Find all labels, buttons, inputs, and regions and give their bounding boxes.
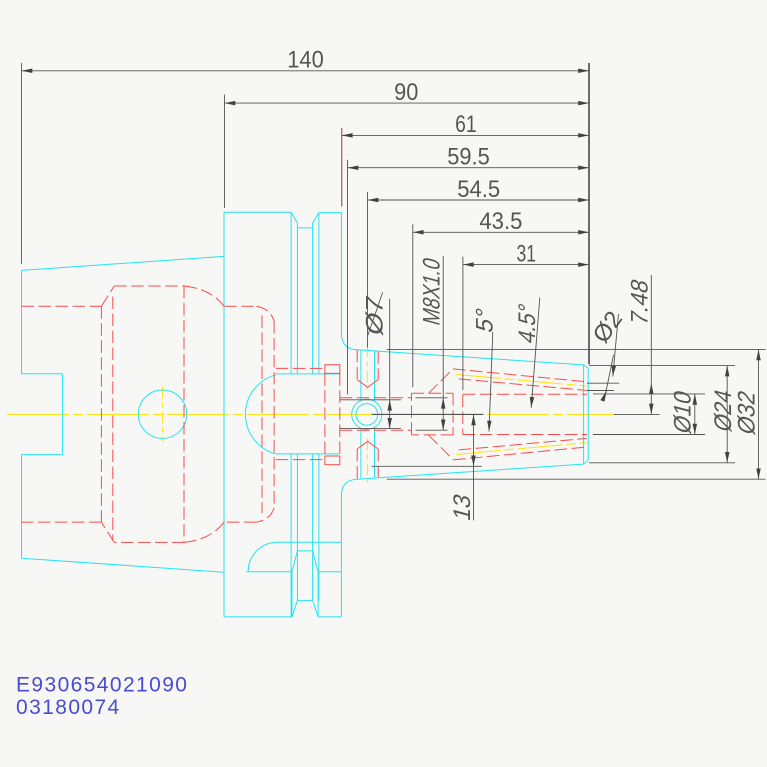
- coolant cross-hole walls top: [361, 350, 375, 401]
- svg-text:03180074: 03180074: [16, 696, 121, 719]
- cavity outer wall left: [100, 306, 102, 522]
- svg-text:43.5: 43.5: [479, 208, 522, 235]
- ext line flange left (90): [224, 95, 226, 209]
- collet outer taper bottom lines: [453, 438, 586, 460]
- shank cavity upper profile: [22, 286, 275, 321]
- dia32 dim line: [758, 349, 760, 479]
- keyway slot inner top: [292, 551, 318, 572]
- M8 dim line and arrows: [442, 256, 444, 398]
- flange disc bottom edge: [224, 616, 292, 618]
- svg-text:M8X1.0: M8X1.0: [419, 255, 446, 328]
- bottom set screw hole walls: [357, 449, 378, 479]
- dia32 ext lines: [387, 349, 766, 479]
- 13 dim line: [473, 414, 475, 466]
- HSK shank taper outline: [22, 256, 225, 572]
- shank cavity lower profile: [22, 508, 275, 543]
- flange disc right face: [290, 212, 292, 617]
- cavity inner wall left: [112, 297, 114, 540]
- svg-text:Ø32: Ø32: [734, 388, 761, 438]
- shank circle (grip hole): [138, 390, 186, 438]
- nose cone top edge: [358, 350, 584, 365]
- flange bore lines: [276, 368, 325, 459]
- coolant cross-hole walls bottom: [361, 428, 375, 479]
- ext line 31: [462, 257, 464, 390]
- svg-text:Ø7: Ø7: [362, 293, 389, 338]
- 4.5deg leader: [531, 298, 540, 408]
- keyway slot inner bottom chamfers: [292, 600, 318, 617]
- top set screw hole walls: [357, 350, 378, 380]
- ring groove side walls: [325, 373, 340, 456]
- dia7 refs: [340, 400, 401, 429]
- dim line 31: [463, 264, 589, 266]
- bottom set screw centerline: [366, 439, 368, 483]
- dia24 dim line: [726, 366, 728, 463]
- top set screw drill point: [357, 380, 378, 388]
- nose bore lines: [463, 394, 587, 434]
- shank circle vertical centerline: [162, 387, 164, 442]
- dim line 90: [225, 102, 590, 104]
- cavity thread line: [183, 286, 185, 542]
- ext line right datum: [588, 63, 590, 364]
- svg-text:54.5: 54.5: [457, 176, 500, 203]
- dim line 43.5: [413, 231, 589, 233]
- ring groove solid caps: [325, 365, 340, 374]
- dia2 ref lines: [587, 383, 619, 390]
- 7.48 dim line: [650, 275, 652, 383]
- flange disc top edge: [224, 211, 291, 213]
- svg-text:31: 31: [517, 240, 537, 267]
- cavity inner line: [261, 315, 263, 513]
- top set screw centerline: [366, 346, 368, 391]
- keyway floor left: [246, 571, 341, 573]
- ext line 59.5: [347, 160, 349, 395]
- M8 thread bore lines: [340, 398, 412, 430]
- keyway floor right: [278, 541, 342, 543]
- dim line 54.5: [368, 199, 590, 201]
- svg-text:59.5: 59.5: [447, 144, 490, 171]
- dia2 leaders: [613, 314, 619, 377]
- 5deg leader: [489, 332, 493, 432]
- svg-text:90: 90: [394, 79, 418, 106]
- collet pocket rectangle: [412, 393, 454, 435]
- 13 centre ref: [372, 413, 484, 415]
- M8 refs: [416, 398, 448, 430]
- pocket second wall: [462, 395, 464, 435]
- nose front face: [584, 365, 589, 464]
- V-groove top: chamfers, walls, floor: [291, 212, 341, 228]
- keyway slot walls: [292, 572, 318, 617]
- collet slot centerline top: [456, 374, 587, 386]
- bore lines from dome to ring groove: [276, 374, 339, 454]
- 7.48 centre ref: [614, 413, 660, 415]
- ext line 43.5: [412, 224, 414, 387]
- V-groove cylinder walls: [297, 228, 312, 601]
- dia24 ext lines: [589, 366, 735, 463]
- ext line left (140): [21, 63, 23, 264]
- dia10 dim line: [694, 394, 696, 435]
- collet back chamfer top: [429, 369, 453, 393]
- nose chamfer edge: [583, 365, 585, 464]
- second ring bottom edge: [318, 616, 341, 618]
- svg-text:4.5°: 4.5°: [514, 301, 541, 346]
- dim line 140: [22, 70, 590, 72]
- svg-text:61: 61: [455, 111, 477, 138]
- shank cavity right cap: [273, 321, 275, 508]
- dia7 oblique tick: [368, 292, 383, 335]
- svg-text:7.48: 7.48: [627, 276, 654, 328]
- svg-text:140: 140: [287, 47, 324, 74]
- 13 ref line: [372, 465, 482, 467]
- bore dome in flange: [245, 375, 275, 454]
- ext line 54.5: [367, 192, 369, 348]
- ring left face: [318, 213, 320, 601]
- dia10 ext lines: [593, 394, 705, 435]
- main horizontal centerline: [7, 413, 616, 415]
- central bore circles: [352, 399, 382, 429]
- dia7 dim line and arrows: [389, 299, 391, 400]
- svg-text:E930654021090: E930654021090: [16, 674, 188, 697]
- bottom set screw drill point: [357, 441, 378, 449]
- bottom keyway fillet arc: [248, 542, 277, 571]
- collet outer taper top lines: [453, 369, 586, 391]
- svg-text:Ø10: Ø10: [670, 388, 697, 437]
- nose cone bottom edge: [358, 464, 584, 479]
- ext line 61: [341, 128, 343, 207]
- collet back chamfer bottom: [429, 435, 453, 459]
- collet slot centerline bottom: [456, 443, 587, 455]
- dim line 61: [342, 134, 589, 136]
- second ring right face with fillets to nose cone: [341, 213, 358, 617]
- flange disc left face: [223, 212, 225, 617]
- keyway slot floor line: [297, 599, 312, 601]
- dim line 59.5: [348, 167, 590, 169]
